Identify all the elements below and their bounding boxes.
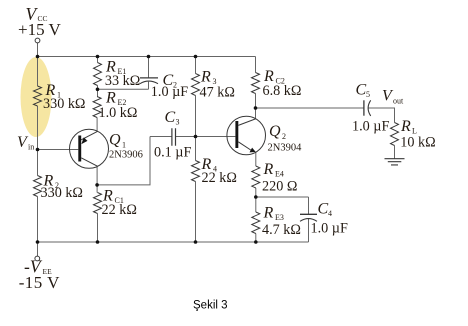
resistor RE1 33k [94,59,141,89]
wire: R3 leads [195,57,197,137]
wire: R1 to Vin node to R2 [37,106,39,176]
wire: C3 to Q2 base [176,136,236,138]
resistor RE2 1.0k [93,90,137,122]
svg-text:22 kΩ: 22 kΩ [102,202,137,218]
svg-text:R: R [105,90,116,107]
wire: Q2 emitter to RE4 [255,152,257,166]
wire: RE1 leads and RE1/RE2 junction to C2 [98,57,149,97]
svg-text:R: R [263,204,274,221]
svg-text:220 Ω: 220 Ω [262,178,297,194]
svg-text:-15 V: -15 V [19,273,60,292]
wire: RE3 to bottom rail [255,234,257,243]
svg-text:Q: Q [109,132,121,149]
resistor RE4 220 [252,161,298,194]
svg-text:E3: E3 [275,213,284,222]
capacitor C2 1.0uF [140,72,188,100]
svg-text:4.7 kΩ: 4.7 kΩ [262,222,301,238]
transistor Q1 2N3906 [70,129,143,168]
svg-text:2N3906: 2N3906 [109,149,143,160]
resistor R2 330k [34,173,83,202]
svg-text:0.1 µF: 0.1 µF [154,144,191,160]
resistor RC1 22k [94,188,137,219]
resistor R3 47k [192,69,235,101]
resistor R1 330k [34,82,86,112]
svg-text:1.0 µF: 1.0 µF [352,119,389,135]
svg-text:R: R [200,69,211,86]
svg-text:Q: Q [269,123,281,140]
wire: bottom -15V rail [38,242,309,256]
wire: C5 to RL [368,108,394,123]
svg-text:5: 5 [366,90,370,99]
Vcc terminal [18,4,62,43]
svg-text:47 kΩ: 47 kΩ [200,85,235,101]
wire: C4 leads [308,197,310,242]
resistor RL 10k [391,118,436,151]
capacitor C3 0.1uF [154,109,191,160]
wire: RC2 column and collector node [255,57,257,119]
svg-text:1.0 µF: 1.0 µF [151,84,188,100]
highlight ellipse on R1 [21,57,52,137]
wire: RE2 to Q1 emitter [96,118,98,132]
svg-text:33 kΩ: 33 kΩ [105,73,140,89]
caption Sekil 3 [193,299,228,311]
svg-text:4: 4 [328,209,332,218]
wire: RL to ground [394,146,396,159]
svg-text:2N3904: 2N3904 [268,142,303,153]
node Vout [382,87,404,105]
svg-text:1: 1 [122,141,126,150]
svg-text:Şekil 3: Şekil 3 [193,299,228,311]
svg-text:3: 3 [176,118,180,127]
svg-text:10 kΩ: 10 kΩ [400,135,435,151]
resistor R4 22k [192,156,237,186]
svg-text:C: C [165,109,176,126]
svg-text:R: R [400,118,411,135]
capacitor C4 1.0uF [300,200,348,236]
svg-text:1.0 kΩ: 1.0 kΩ [99,105,138,121]
svg-text:E4: E4 [275,170,284,179]
svg-text:C: C [318,200,329,217]
wire: C2 top lead [148,57,150,78]
wire: RE4 to node, node to C4 [256,188,309,212]
wire: Q1 collector to RC1 and jog to C3 [97,137,171,193]
svg-text:6.8 kΩ: 6.8 kΩ [263,83,302,99]
wire: Vin node to Q1 base [38,149,79,151]
wire: left rail Vcc to R1 [37,57,39,87]
ground [385,159,405,165]
svg-text:C: C [356,81,367,98]
resistor RC2 6.8k [252,68,302,99]
capacitor C5 1.0uF [352,81,389,134]
wire: R2 to bottom rail [37,197,39,243]
svg-text:out: out [393,96,404,105]
svg-text:1.0 µF: 1.0 µF [311,220,348,236]
svg-text:330 kΩ: 330 kΩ [41,185,83,201]
svg-text:R: R [263,161,274,178]
-Vee terminal [19,256,60,292]
transistor Q2 2N3904 [227,116,302,155]
wire: RC1 to bottom rail [97,214,99,243]
node Vin [17,134,34,152]
svg-text:330 kΩ: 330 kΩ [43,96,85,112]
svg-text:22 kΩ: 22 kΩ [202,170,237,186]
wire: R4 leads [195,137,197,243]
svg-text:+15 V: +15 V [18,20,62,39]
wire: output line to C5 [256,107,364,109]
svg-text:2: 2 [282,132,286,141]
resistor RE3 4.7k [252,204,301,238]
wire: top +15V rail [38,43,256,57]
svg-text:in: in [28,143,34,152]
